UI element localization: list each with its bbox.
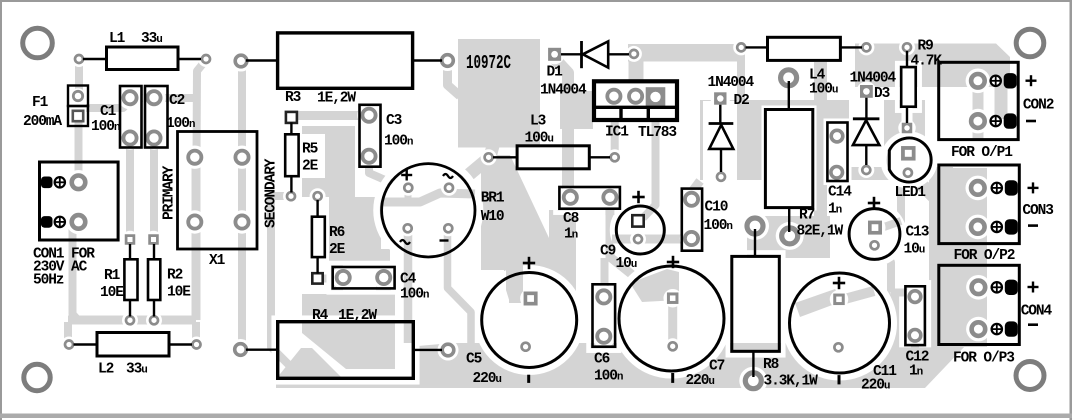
svg-text:100n: 100n [594,369,623,385]
polarity mark CON2 + [1026,79,1037,81]
wire CON2 lower feed [995,85,1008,119]
pad L2 pin 2 [193,341,201,349]
wire C3 bottom toward BR1 [369,158,392,183]
pad R2 pin 2 [150,316,158,324]
wire exit from C8 right pad [605,199,614,215]
pad C4 pin 2 [377,271,390,284]
wire BR1 interior crossing trace [382,193,475,202]
wire X1 primary left column [192,158,201,320]
pad R3 pin 1 [235,55,247,67]
pad X1 primary pin 2 [235,151,248,164]
pad R9 pin 2 pad [902,123,913,134]
resistor R5 body [285,134,298,176]
pad C14 pin 1 [831,130,843,142]
wire C7 positive to negative column [668,297,677,347]
capacitor C14 body [827,123,847,182]
svg-text:R2: R2 [167,268,183,284]
resistor R4 body [278,322,414,379]
wire C12 bottom pad down [911,340,919,374]
pad CON3 pin 1 [971,181,985,195]
wire IC1 pin3 down to C9 positive pad [643,120,656,218]
polarity mark BR1 - [440,239,449,241]
svg-text:10u: 10u [904,242,925,258]
svg-text:C6: C6 [594,352,610,368]
diode D2 [719,105,721,124]
wire C9 negative to C10 bottom pad [617,235,689,244]
svg-text:L3: L3 [530,114,546,130]
copper pour band right of R7 [814,62,827,255]
interior of C7 [619,266,724,371]
resistor R9 body [901,67,916,107]
capacitor C5 outline [482,273,577,368]
pad D1 cathode [630,50,638,58]
resistor R8 [754,229,756,256]
bridge rectifier BR1 [382,164,475,257]
mounting hole top-left [23,28,53,58]
pad C6 pin 2 [597,330,610,343]
pad C3 pin 2 [362,150,375,163]
polarity mark BR1 + [401,174,412,176]
polarity mark CON4 + [1028,286,1039,288]
svg-text:220u: 220u [686,373,715,389]
pad L1 pin 2 [202,55,210,63]
inductor L2 [74,343,98,345]
wire pour to C10 top pad [688,181,700,197]
svg-text:CON4: CON4 [1021,304,1053,320]
CON1 body [40,162,119,240]
polarity mark CON4 - [1028,323,1038,326]
resistor R7 body [765,110,812,208]
wire F1 to CON1 pin1 [75,112,83,182]
svg-text:100u: 100u [809,82,838,98]
wire pour wedge into C11 [795,289,843,317]
pad D3 anode [862,166,870,174]
clearance around LED1 [884,135,935,186]
transformer X1 body [178,132,258,250]
pad C14 pin 2 [831,167,843,179]
svg-text:100u: 100u [525,131,554,147]
svg-text:10972C: 10972C [466,52,511,74]
wire C2 bottom to R2 [150,139,158,237]
inductor L4 body [768,37,841,60]
polarity mark C9 + [632,196,644,199]
wire R6 bottom to C4 left [318,275,340,283]
svg-text:C1: C1 [100,104,117,120]
polarity mark CON3 - [1028,224,1038,227]
pad LED1 anode pad [901,146,916,161]
capacitor C2 body [145,86,168,148]
svg-text:220u: 220u [473,371,502,387]
pad BR1 AC pin 1 [445,184,453,192]
svg-text:33u: 33u [126,362,147,378]
resistor R3 [246,59,278,61]
copper pour block near 10972C [458,39,540,148]
svg-text:100n: 100n [91,119,120,135]
wire C12 bottom pad down [911,338,919,374]
svg-text:220u: 220u [861,378,890,394]
pad X1 secondary pin 2 [235,215,248,228]
svg-text:L1: L1 [109,31,126,47]
polarity mark CON2 - [1026,120,1036,123]
pad CON2 pin 1 [971,74,985,88]
svg-text:C8: C8 [563,211,579,227]
BR1 ac mark bottom [400,240,410,244]
pad C13 positive pad [868,221,882,235]
svg-text:1N4004: 1N4004 [850,71,897,87]
wire R3 left pad through X1 to R4 left pad [238,62,246,350]
wire block to BR1 AC pad [453,142,494,188]
wire C6 top pad up [601,258,609,294]
mounting hole bottom-right [1016,362,1044,390]
pad CON3 pin 2 [971,220,985,234]
capacitor C13 outline [849,209,900,260]
wire stub into C13 positive pad [884,221,901,227]
polarity tick C7 [671,373,674,383]
svg-text:CON2: CON2 [1023,98,1054,114]
svg-text:100n: 100n [166,116,195,132]
wire band down to C13 positive pad [884,179,901,227]
clearance around R7 [762,106,817,211]
wire pour wedge into C7 [630,269,679,302]
wire CON2 pad1 down [973,87,984,139]
copper pour pour column to ground block [329,265,343,294]
pad CON1 pin 2 [72,215,86,229]
svg-text:1E,2W: 1E,2W [338,308,377,324]
svg-text:C2: C2 [169,93,185,109]
svg-text:1n: 1n [909,364,923,380]
pad C11 positive pad [833,294,845,306]
wire C13 negative down [874,248,891,292]
BR1 ac mark top [443,174,453,178]
svg-text:100n: 100n [384,134,413,150]
resistor R4 [246,349,278,351]
pad C10 pin 1 [685,193,698,206]
svg-text:D3: D3 [874,86,890,102]
clearance around C7 [615,262,729,376]
svg-text:1E,2W: 1E,2W [317,91,356,107]
CON2 body [939,62,1019,139]
clearance around R9 stem [902,107,913,124]
pad CON4 pin 1 [972,281,986,295]
svg-text:IC1: IC1 [605,125,629,141]
svg-text:C10: C10 [705,200,728,216]
clearance around D2 [703,101,737,183]
svg-text:R4: R4 [312,308,329,324]
wire C1 bottom to R1 [126,139,134,237]
clearance around R8 [728,252,784,355]
wire C8 right pad to C7 positive pad [610,203,668,295]
board frame bottom edge [0,414,1072,419]
resistor R3 body [278,33,413,88]
svg-text:100n: 100n [400,287,429,303]
wire C1 top to C2 top [130,94,196,102]
pad R4 pin 1 [235,344,247,356]
svg-text:10E: 10E [100,285,124,301]
inductor L3 body [517,146,589,169]
wire pour wedge into C5 [506,262,523,303]
wire BR1 AC2 pad down to ground pour [404,230,413,343]
IC1 pin3 square pad [646,87,666,107]
pad C2 pin 1 [147,91,160,104]
svg-text:100n: 100n [704,218,733,234]
pad R3 pin 2 [442,55,454,67]
svg-text:C9: C9 [600,244,616,260]
clearance around D3 [849,98,884,167]
pad R9 pin 1 [903,43,911,51]
resistor R8 body [732,256,780,351]
copper pour pour below BR1 [481,155,549,270]
svg-text:PRIMARY: PRIMARY [162,165,178,220]
resistor R2 [153,244,155,259]
resistor R7 [788,81,790,110]
inductor L3 [493,156,517,158]
capacitor C1 body [120,86,142,148]
copper pour pour left of IC1 [560,91,593,129]
svg-text:R6: R6 [329,225,345,241]
copper pour pour near R7 R8 pads [747,216,830,258]
pad R5 pin 2 [287,192,295,200]
pad IC1 pin 2 [629,90,642,103]
diode D1 [561,53,583,55]
wire C9 negative to C10 crossing [612,235,689,244]
fuse F1 lower [68,106,88,126]
svg-text:R1: R1 [104,268,121,284]
svg-text:TL783: TL783 [638,125,676,141]
svg-text:BR1: BR1 [481,191,505,207]
pad LED1 cathode [904,169,912,177]
clearance around C14 [824,119,852,186]
svg-text:1N4004: 1N4004 [708,75,755,91]
polarity mark C13 + [868,202,880,205]
svg-text:C13: C13 [906,225,929,241]
inductor L2 body [97,333,169,357]
svg-text:LED1: LED1 [895,185,927,201]
pad C6 pin 1 [597,290,610,303]
wire entry to C12 top pad [891,289,910,297]
svg-text:SECONDARY: SECONDARY [264,158,280,228]
pad R1 pin 2 [126,316,134,324]
svg-text:C3: C3 [386,113,402,129]
svg-text:33u: 33u [141,31,162,47]
pad CON2 pin 2 [971,114,985,128]
pad BR1 negative pin [444,224,452,232]
CON4 body [939,265,1020,344]
pad CON4 pin 2 [972,322,986,336]
copper pour net D1 cathode to L4 [628,44,744,62]
svg-text:10u: 10u [616,256,637,272]
copper pour ground pour block under R4 [302,294,395,369]
wire C5 positive pad feed [509,294,526,303]
mounting hole bottom-left [24,364,50,390]
svg-text:X1: X1 [209,253,226,269]
capacitor C9 outline [616,206,664,254]
board frame right edge [1070,0,1072,420]
wire band diagonal to CON3 column [912,175,952,215]
pad C7 positive pad [667,292,679,304]
svg-text:82E,1W: 82E,1W [797,224,844,240]
clearance around IC1 [596,83,675,118]
IC1 body [594,81,677,120]
capacitor C12 body [905,286,925,345]
wire entry to C6 top pad [601,278,609,295]
pad D1 anode pad [548,48,561,61]
pad L3 pin 1 [485,153,493,161]
svg-text:R5: R5 [302,142,318,158]
copper pour ground pour strip [276,343,966,388]
capacitor C3 body [360,105,381,167]
pad C10 pin 2 [685,232,698,245]
polarity mark C11 + [833,282,845,285]
copper pour band L4 to CON2 [855,44,1010,88]
wire rail to L2 right pad [192,322,200,343]
svg-text:R3: R3 [285,90,301,106]
resistor R6 body [312,217,325,257]
svg-text:3.3K,1W: 3.3K,1W [764,374,819,390]
inductor L4 [746,46,768,48]
pad D2 cathode pad [714,92,726,104]
clearance around R5 label area [299,134,325,178]
capacitor C10 body [682,189,702,251]
resistor R1 body [124,259,137,300]
pad L3 pin 2 [611,153,619,161]
polarity tick C11 [838,375,841,384]
copper pour pour between R5 and C3 [302,126,355,197]
svg-text:R7: R7 [799,208,815,224]
pad D3 cathode pad [860,85,873,98]
wire L1 right pad to X1 primary [197,60,207,158]
pad L1 pin 1 [75,55,83,63]
interior of BR1 [382,164,475,257]
pad R4 pin 2 [442,344,454,356]
interior of C13 [849,209,900,260]
svg-text:50Hz: 50Hz [33,273,64,289]
pad D2 anode [717,173,725,181]
pad C9 negative [634,235,642,243]
pad C8 pin 1 [564,191,577,204]
resistor R9 [906,51,908,67]
svg-text:FOR O/P2: FOR O/P2 [954,248,1015,264]
LED1 outline [889,138,931,182]
pad C1 pin 1 [123,91,136,104]
svg-text:1n: 1n [564,227,578,243]
R5 top pad [286,112,297,123]
clearance around C6 [589,280,620,350]
svg-text:C7: C7 [709,359,725,375]
pad F1 pin 1 [74,92,82,100]
capacitor C8 body [559,187,620,209]
copper pour C4 right pad stub [376,276,391,296]
wire F1 to C1 top pad [86,101,130,109]
pad BR1 positive pin [404,184,412,192]
clearance around BR1 [377,159,481,263]
svg-text:D2: D2 [734,93,750,109]
clearance around C8 [555,183,624,213]
copper pour band right of C5 [549,210,576,343]
pad L2 pin 1 [65,341,73,349]
pad C11 negative [834,343,842,351]
polarity tick C5 [527,375,530,383]
pad C5 positive pad [524,292,538,306]
svg-text:L2: L2 [98,362,114,378]
wire entry to C8 left pad [562,180,574,196]
clearance around C12 [901,282,929,345]
pad R7 pin 1 [781,70,797,86]
capacitor C11 outline [790,273,890,373]
svg-text:F1: F1 [32,95,49,111]
capacitor C6 body [593,284,616,346]
svg-text:D1: D1 [547,65,564,81]
inductor L1 [83,58,107,60]
svg-text:FOR O/P3: FOR O/P3 [953,351,1014,367]
pad R7 pin 2 [782,228,798,244]
copper pour pour around D2 R7 D3 [700,100,925,180]
pad C2 pin 2 [147,131,160,144]
svg-text:1n: 1n [828,202,842,218]
svg-text:C14: C14 [828,185,852,201]
pad C7 negative [669,342,677,350]
clearance around R4 [274,318,418,383]
interior of LED1 [889,138,931,182]
interior of C5 [482,273,577,368]
copper pour pour between R6 and BR1 [329,197,390,265]
clearance around C13 [846,205,904,263]
pad L4 pin 1 [737,43,745,51]
svg-text:W10: W10 [481,209,504,225]
pad C12 pin 1 [909,291,921,303]
R6 bottom pad [312,273,322,283]
C9 positive pad [632,215,643,226]
wire CON1 pin2 down [73,224,78,319]
wire C11 positive pad diagonal [841,291,874,300]
wire rail to L2 left pad [64,322,72,343]
copper pour band left of C12 [891,296,903,345]
svg-text:10E: 10E [167,285,191,301]
resistor R6 [316,200,318,217]
pad C12 pin 2 [909,330,921,342]
copper pour band D3 LED1 to CON3 [845,167,953,180]
pad CON1 pin 1 [72,176,86,190]
pad L4 pin 2 [862,43,870,51]
clearance around C4 [329,263,399,292]
wire R5 bottom loop down [271,196,295,371]
wire L4 left pad down to pour [737,51,745,100]
pad C1 pin 2 [123,131,136,144]
svg-text:C4: C4 [400,272,417,288]
pad C4 pin 1 [337,271,350,284]
svg-text:R9: R9 [918,39,934,55]
copper pour CON3 CON4 column [929,168,987,347]
diode D3 [865,98,867,119]
pad clearance halos [71,51,87,67]
pad C13 negative [871,241,879,249]
CON3 body [939,165,1020,244]
board frame top edge [0,0,1072,2]
interior of C11 [790,273,890,373]
polarity mark CON3 + [1028,187,1039,189]
fuse F1 upper [68,86,88,107]
wire bottom rail [68,316,196,325]
pad R8 pin 2 [745,373,761,389]
wire L1 left pad to F1 [75,59,83,97]
pad X1 primary pin 1 [188,151,201,164]
copper pour band into C5 [504,258,523,303]
svg-text:2E: 2E [329,242,346,258]
board frame left edge [0,0,2,420]
pad C3 pin 1 [362,109,375,122]
wire to C12 top pad [891,289,910,297]
resistor R5 [290,123,292,135]
resistor R1 [129,244,131,259]
